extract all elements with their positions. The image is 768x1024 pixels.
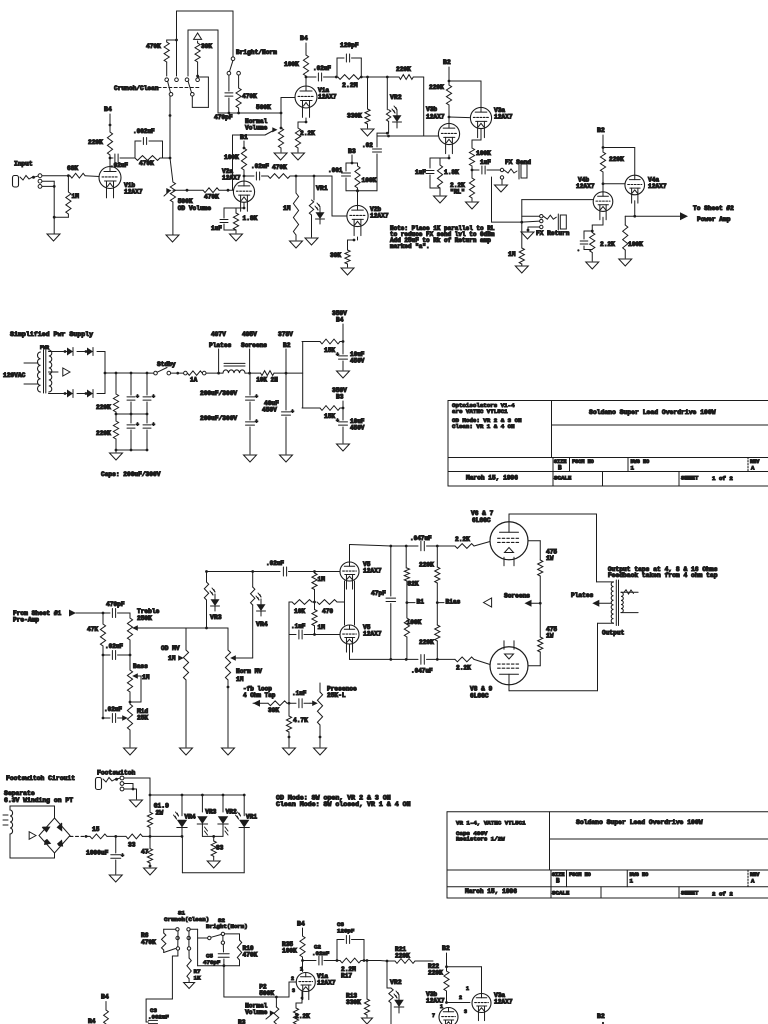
svg-text:.02uF: .02uF: [104, 706, 122, 713]
svg-text:Norm MV: Norm MV: [236, 668, 262, 675]
opto VR4: [251, 570, 254, 573]
vertical mix bus: [197, 929, 199, 965]
svg-text:Plates: Plates: [571, 592, 594, 599]
branch B4: [302, 341, 320, 343]
V2a cathode network 1uF 1.8K: [243, 203, 245, 209]
svg-text:+: +: [255, 394, 258, 400]
svg-text:39K: 39K: [201, 43, 212, 50]
node VR2 branch: [386, 76, 389, 79]
small arrows VR2: [225, 827, 228, 831]
svg-text:100K: 100K: [284, 61, 299, 68]
svg-text:+: +: [152, 422, 155, 428]
resistor R7 1K: [187, 958, 191, 979]
branch B3: [302, 407, 320, 409]
svg-text:12AX7: 12AX7: [494, 114, 513, 121]
shared envelope lines: [344, 581, 346, 625]
svg-text:Power Amp: Power Amp: [697, 216, 731, 223]
resistor 220K plate V3b: [446, 85, 451, 105]
svg-text:.02uF: .02uF: [251, 163, 269, 170]
capacitor .02uF coupling V1b: [110, 157, 113, 159]
svg-text:Footswitch: Footswitch: [97, 770, 136, 777]
tube V3a 12AX7: [470, 107, 491, 128]
svg-text:470pF: 470pF: [203, 959, 221, 966]
svg-text:47: 47: [141, 849, 149, 856]
svg-text:Input: Input: [14, 161, 33, 168]
wire sleeve to ground: [42, 180, 54, 182]
wire from V1a coupling: [327, 76, 336, 78]
wire V1a plate to .02: [305, 76, 308, 78]
svg-text:Screens: Screens: [504, 593, 530, 600]
svg-text:12AX7: 12AX7: [494, 999, 513, 1006]
opto VR1: [313, 175, 316, 178]
svg-text:220K: 220K: [396, 66, 411, 73]
ground presence: [314, 748, 327, 755]
svg-text:+: +: [152, 394, 155, 400]
node 330K: [361, 76, 387, 78]
tube V5b 12AX7: [340, 625, 359, 644]
node 1000uF: [107, 835, 126, 837]
filter caps bank: [130, 372, 133, 375]
svg-text:March 15, 1996: March 15, 1996: [465, 888, 517, 895]
capacitor .047uF lower: [420, 655, 422, 665]
svg-text:1: 1: [300, 967, 303, 973]
resistor 1M upper: [314, 572, 316, 574]
svg-text:4 Ohm Tap: 4 Ohm Tap: [243, 692, 276, 699]
resistor 15K B3: [320, 406, 340, 411]
svg-text:OD Volume: OD Volume: [178, 205, 212, 212]
svg-text:B2: B2: [597, 1013, 605, 1020]
capacitor .02uF mid: [102, 655, 104, 718]
svg-text:220K: 220K: [96, 404, 111, 411]
small arrows VR1: [238, 812, 241, 816]
resistor 1M grid leak: [67, 176, 69, 192]
resistor 100K: [469, 148, 474, 166]
resistor 2.2M: [338, 75, 361, 80]
svg-text:470K: 470K: [141, 939, 156, 946]
wire left long: [146, 998, 172, 1000]
svg-text:1K: 1K: [194, 975, 201, 982]
svg-text:Pre-Amp: Pre-Amp: [13, 617, 39, 624]
footswitch jack wires: [117, 778, 121, 779]
svg-text:+: +: [336, 418, 339, 424]
svg-text:+: +: [136, 422, 139, 428]
resistor 15K B4: [320, 339, 340, 344]
svg-text:PWR: PWR: [40, 345, 49, 351]
norm volume wiper: [265, 131, 273, 135]
svg-text:.02: .02: [362, 142, 373, 149]
svg-text:1000uF: 1000uF: [86, 850, 109, 857]
svg-text:Plates: Plates: [209, 342, 232, 349]
svg-text:100K: 100K: [628, 241, 643, 248]
bus to choke: [206, 372, 223, 374]
wire OD wiper to 470K: [164, 192, 169, 197]
resistor 10K: [250, 372, 261, 374]
svg-text:V8 & 9: V8 & 9: [470, 686, 493, 693]
ground V1a cathode: [292, 153, 305, 160]
svg-text:1M: 1M: [508, 251, 516, 258]
bass wiper loop: [138, 675, 141, 677]
resistor 470K mix: [135, 156, 160, 161]
svg-text:VR3: VR3: [210, 614, 222, 621]
resistor 10K: [289, 601, 292, 603]
capacitor C3: [149, 1019, 158, 1021]
ground 1M: [295, 235, 297, 240]
S2 contacts: [198, 937, 208, 939]
svg-text:1M: 1M: [168, 655, 176, 662]
V4a cathode to output: [634, 201, 636, 217]
svg-text:Screens: Screens: [241, 342, 267, 349]
resistor 2.2K grid stop lower: [455, 657, 474, 662]
svg-text:61.9: 61.9: [154, 803, 170, 810]
title block sheet2 bottom row: [447, 886, 551, 888]
svg-text:1M: 1M: [318, 624, 326, 631]
resistor 470K crunch: [167, 39, 177, 41]
svg-text:2.2K: 2.2K: [456, 665, 471, 672]
svg-text:220K: 220K: [395, 953, 410, 960]
svg-text:450V: 450V: [350, 425, 365, 432]
to sheet 2 arrow: [635, 215, 682, 217]
ground B4 cap: [337, 371, 350, 378]
tube V1a 12AX7: [295, 86, 317, 108]
node 220K top: [436, 545, 439, 548]
svg-text:15K: 15K: [324, 347, 335, 354]
svg-text:FSCM NO: FSCM NO: [572, 459, 594, 465]
svg-text:OD MV: OD MV: [161, 645, 180, 652]
svg-text:39K: 39K: [330, 252, 341, 259]
svg-text:Simplified Pwr Supply: Simplified Pwr Supply: [10, 331, 93, 338]
node after 470K: [295, 175, 298, 178]
V3b cathode 1uF 1.8K: [448, 155, 450, 158]
svg-text:6.3V Winding on PT: 6.3V Winding on PT: [4, 797, 73, 804]
footswitch transformer: [3, 814, 8, 816]
svg-text:Clean: VR 1 & 4 ON: Clean: VR 1 & 4 ON: [452, 423, 515, 430]
svg-text:10K: 10K: [294, 608, 305, 615]
ground B3 cap: [337, 444, 350, 451]
svg-text:Bias: Bias: [446, 599, 461, 606]
svg-text:Treble: Treble: [137, 608, 160, 615]
resistor 1M lower: [314, 602, 316, 610]
fuse 1A: [179, 372, 183, 374]
V2b cathode 39K: [357, 237, 359, 240]
HV winding arrow: [49, 371, 59, 373]
bus to normal volume: [218, 112, 281, 114]
title block sheet1: [448, 400, 768, 402]
power tube V6and7 6L6GC: [490, 522, 528, 560]
svg-text:Resistors 1/2W: Resistors 1/2W: [456, 836, 505, 843]
svg-text:Bright/Norm: Bright/Norm: [236, 49, 277, 56]
svg-text:330K: 330K: [346, 999, 361, 1006]
svg-text:SHEET: SHEET: [681, 475, 699, 482]
svg-text:VR1: VR1: [246, 814, 257, 821]
bypass wire send to return: [491, 177, 493, 222]
svg-text:12AX7: 12AX7: [317, 980, 336, 987]
V8 plate to OT: [508, 685, 510, 691]
resistor 100K plate V1a: [303, 55, 308, 76]
tube V2a 12AX7: [233, 181, 254, 202]
svg-text:"RL": "RL": [450, 189, 465, 196]
capacitor .002uF bright: [127, 157, 135, 159]
svg-text:B2: B2: [442, 945, 450, 952]
svg-text:March 15, 1996: March 15, 1996: [466, 475, 518, 482]
node PI grid lower: [313, 633, 316, 636]
svg-text:12AX7: 12AX7: [576, 183, 595, 190]
svg-text:470K: 470K: [204, 194, 219, 201]
svg-text:220K: 220K: [419, 562, 434, 569]
svg-text:1A: 1A: [190, 377, 198, 384]
resistor 1M to ground: [295, 176, 297, 193]
svg-text:450V: 450V: [262, 407, 277, 414]
svg-text:B2: B2: [443, 59, 451, 66]
svg-text:220K: 220K: [419, 639, 434, 646]
resistor 4.7K: [288, 703, 290, 716]
svg-text:.047uF: .047uF: [411, 668, 433, 675]
resistor 82K: [405, 546, 407, 568]
svg-text:470K: 470K: [243, 952, 258, 959]
svg-text:.002uF: .002uF: [148, 1014, 169, 1021]
wire down to V3b grid: [423, 77, 425, 136]
resistor 39K: [197, 41, 199, 43]
svg-text:FSCM NO: FSCM NO: [569, 872, 591, 878]
svg-text:220K: 220K: [428, 970, 443, 977]
svg-text:B3: B3: [336, 394, 344, 401]
tube V1b 12AX7: [99, 167, 121, 189]
node 82K top: [405, 545, 408, 548]
capacitor 40uF 450V: [285, 373, 287, 410]
svg-text:SCALE: SCALE: [552, 890, 570, 897]
svg-text:2.2K: 2.2K: [300, 130, 315, 137]
svg-text:.02uF: .02uF: [110, 162, 128, 169]
ground psu caps: [110, 453, 123, 460]
tube V5a 12AX7: [340, 562, 359, 581]
svg-text:100K: 100K: [407, 619, 422, 626]
tube V2b 12AX7: [357, 191, 359, 206]
svg-text:Volume: Volume: [245, 1009, 268, 1016]
hook wire S1b to 39K: [191, 96, 193, 107]
capacitor .02uF bass: [102, 654, 105, 657]
choke 2H: [223, 370, 245, 373]
svg-text:4.7K: 4.7K: [293, 717, 308, 724]
svg-text:2.2K: 2.2K: [600, 241, 615, 248]
svg-text:470K: 470K: [242, 93, 257, 100]
wire S1a to volume node: [170, 95, 173, 97]
svg-text:2: 2: [291, 976, 294, 982]
svg-text:R6: R6: [141, 932, 149, 939]
resistor 33 ohm led: [213, 836, 215, 841]
node screens: [245, 372, 250, 374]
svg-text:B2: B2: [597, 127, 605, 134]
svg-text:Caps: 200uF/300V: Caps: 200uF/300V: [101, 471, 161, 478]
svg-text:1.8K: 1.8K: [243, 215, 258, 222]
svg-text:500K: 500K: [178, 198, 193, 205]
svg-text:82K: 82K: [408, 581, 419, 588]
svg-text:500K: 500K: [256, 104, 271, 111]
svg-text:Volume: Volume: [245, 125, 268, 132]
svg-text:220K: 220K: [88, 139, 103, 146]
capacitor .02uF PI input: [282, 567, 284, 576]
capacitor 1uF FX send: [472, 169, 479, 171]
svg-text:VR3: VR3: [205, 809, 216, 816]
svg-text:12AX7: 12AX7: [124, 189, 143, 196]
ground OD MV: [180, 748, 193, 755]
wire to V3a plate detail: [447, 966, 482, 968]
FX return jack: [540, 215, 543, 218]
switch S1 crunch/clean: [165, 78, 169, 82]
svg-text:470K: 470K: [139, 160, 154, 167]
node after stdby: [171, 372, 176, 374]
svg-text:378V: 378V: [278, 331, 293, 338]
FX return line to V4b: [522, 199, 593, 201]
ground 39K: [341, 268, 354, 275]
tube V3b 12AX7: [438, 123, 459, 144]
svg-text:marked "a".: marked "a".: [390, 243, 430, 250]
svg-text:12AX7: 12AX7: [222, 175, 241, 182]
small arrows VR4: [176, 812, 179, 816]
svg-text:Stdby: Stdby: [157, 361, 176, 368]
svg-text:.02uF: .02uF: [105, 643, 123, 650]
node 82K bottom bus: [405, 658, 408, 661]
capacitor .02uF V2a out: [244, 175, 254, 177]
ground 40uF: [280, 455, 293, 462]
svg-text:R17: R17: [341, 973, 352, 980]
svg-text:470pF: 470pF: [214, 114, 233, 121]
rectifier diodes top: [49, 351, 66, 353]
wire B2 to V3a plate: [449, 80, 481, 82]
svg-text:.001: .001: [328, 167, 343, 174]
wire S2 to cap: [222, 936, 224, 941]
capacitor 1000uF: [115, 836, 117, 853]
svg-text:15: 15: [92, 826, 100, 833]
resistor 220K plate V4b: [602, 148, 604, 153]
svg-text:25K: 25K: [137, 715, 148, 722]
ground V3b cathode: [434, 196, 447, 203]
svg-text:470K: 470K: [146, 43, 161, 50]
svg-text:B: B: [558, 465, 562, 472]
svg-text:2W: 2W: [156, 810, 164, 817]
VR32 cathode bus: [202, 835, 223, 837]
svg-text:220K: 220K: [609, 156, 624, 163]
svg-text:Bright(Norm): Bright(Norm): [206, 923, 248, 930]
output transformer: [611, 582, 613, 623]
svg-text:1: 1: [630, 878, 634, 885]
svg-text:495V: 495V: [242, 331, 257, 338]
svg-text:SCALE: SCALE: [554, 475, 572, 482]
ground V2a cathode: [230, 234, 243, 241]
tube V3a detail: [472, 994, 491, 1013]
svg-text:25K-L: 25K-L: [327, 692, 346, 699]
winding loop: [9, 806, 11, 810]
svg-text:33: 33: [216, 845, 224, 852]
title block sheet2: [447, 811, 768, 813]
svg-text:100K: 100K: [362, 177, 377, 184]
svg-text:497V: 497V: [211, 331, 226, 338]
ground 47: [144, 868, 157, 875]
svg-text:10K 2H: 10K 2H: [256, 377, 278, 384]
wire plate: [109, 155, 111, 167]
svg-text:39K: 39K: [268, 707, 279, 714]
ground R7: [184, 983, 195, 989]
resistor 2.2K RL: [471, 166, 473, 178]
svg-text:Crunch/Clean: Crunch/Clean: [114, 85, 159, 92]
wire V3b grid line: [377, 135, 389, 137]
svg-text:B4: B4: [300, 35, 308, 42]
svg-text:250K: 250K: [137, 615, 152, 622]
resistor 470: [317, 600, 337, 605]
capacitor 470pF bright: [228, 75, 230, 91]
resistor 39K fb: [268, 701, 287, 706]
feedback line: [288, 602, 290, 703]
normal volume pot 500K: [280, 112, 283, 115]
svg-text:12AX7: 12AX7: [370, 213, 389, 220]
tube V4a 12AX7: [625, 175, 645, 195]
parallel 100K and .001 cap: [346, 162, 358, 164]
wire jack to grid: [34, 176, 39, 177]
ground 4.7K: [283, 748, 296, 755]
svg-text:Clean Mode: SW closed, VR 1 &: Clean Mode: SW closed, VR 1 & 4 ON: [276, 801, 411, 808]
V5 upper plate wire: [349, 545, 351, 563]
wire norm wiper to V2a grid: [233, 134, 266, 136]
off-page arrow up 39K: [194, 33, 202, 39]
bias open arrow: [484, 598, 492, 607]
resistor 2.2K grid stop upper: [455, 544, 474, 549]
svg-text:470: 470: [322, 608, 333, 615]
svg-text:B: B: [556, 878, 560, 885]
resistor 15: [86, 835, 90, 837]
rect loop to long vertical: [188, 29, 218, 31]
svg-text:2: 2: [459, 995, 462, 1001]
svg-text:100K: 100K: [476, 150, 491, 157]
svg-text:1M: 1M: [283, 205, 291, 212]
svg-text:.02uF: .02uF: [312, 950, 330, 957]
resistor 220K bias upper: [436, 546, 438, 567]
node 1M upper: [313, 570, 316, 573]
svg-text:.1uF: .1uF: [291, 623, 306, 630]
wire to V2b: [314, 175, 332, 177]
svg-text:+: +: [291, 409, 294, 415]
svg-text:2 of 2: 2 of 2: [712, 891, 733, 898]
V1a grid wire from normal volume bus: [280, 98, 282, 114]
svg-text:Separate: Separate: [4, 790, 35, 797]
ground R13: [362, 1018, 373, 1024]
node input: [67, 174, 70, 177]
ground V4b cathode: [586, 262, 599, 269]
svg-text:1: 1: [440, 1004, 443, 1010]
svg-text:.02uF: .02uF: [266, 560, 284, 567]
bridge arrow: [29, 832, 36, 840]
V5 lower plate wire: [349, 644, 351, 659]
svg-text:15K: 15K: [324, 413, 335, 420]
svg-text:1uF: 1uF: [415, 169, 426, 176]
opto VR3: [205, 570, 208, 573]
svg-text:120pF: 120pF: [340, 42, 359, 49]
node bias: [436, 601, 439, 604]
ground screens caps: [244, 455, 257, 462]
bus bottom S2: [198, 965, 240, 967]
svg-text:12AX7: 12AX7: [363, 631, 382, 638]
svg-text:220K: 220K: [96, 430, 111, 437]
wire treble wiper: [137, 627, 186, 629]
wire to norm MV: [186, 627, 228, 629]
svg-text:Bass: Bass: [133, 663, 148, 670]
node V2a grid: [227, 189, 230, 192]
svg-text:12AX7: 12AX7: [426, 114, 445, 121]
svg-text:VR 1-4, VATEC VTL5C1: VR 1-4, VATEC VTL5C1: [456, 820, 526, 827]
resistor 470K series: [268, 174, 290, 179]
svg-text:B4: B4: [297, 921, 305, 928]
ground norm MV: [222, 748, 235, 755]
V6 plate to OT: [508, 514, 510, 522]
node PI divider: [313, 601, 316, 604]
svg-text:6L6GC: 6L6GC: [472, 517, 491, 524]
